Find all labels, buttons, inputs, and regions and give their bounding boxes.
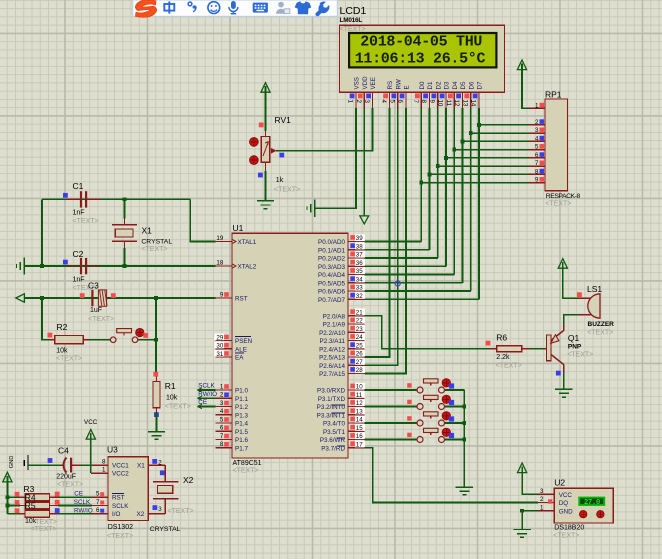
svg-text:30: 30 [216, 343, 223, 350]
svg-text:P0.4/AD4: P0.4/AD4 [318, 272, 345, 279]
svg-text:<TEXT>: <TEXT> [88, 316, 114, 323]
svg-text:<TEXT>: <TEXT> [233, 468, 259, 475]
svg-text:D6: D6 [468, 81, 475, 89]
svg-text:P2.2/A10: P2.2/A10 [319, 330, 345, 337]
svg-text:10: 10 [437, 100, 444, 107]
svg-text:2: 2 [220, 392, 224, 399]
svg-text:3: 3 [540, 488, 544, 495]
svg-text:<TEXT>: <TEXT> [107, 533, 133, 540]
svg-text:P0.2/AD2: P0.2/AD2 [318, 256, 345, 263]
svg-text:2.2k: 2.2k [496, 354, 510, 361]
svg-text:SCLK: SCLK [112, 503, 129, 510]
svg-text:5: 5 [535, 144, 539, 151]
svg-text:1: 1 [347, 100, 354, 104]
svg-text:P1.6: P1.6 [235, 437, 248, 444]
svg-text:DQ: DQ [559, 500, 569, 507]
svg-text:CRYSTAL: CRYSTAL [141, 238, 172, 245]
svg-text:9: 9 [428, 100, 435, 104]
svg-text:C2: C2 [73, 249, 84, 259]
svg-text:8: 8 [535, 168, 539, 175]
svg-text:9: 9 [535, 177, 539, 184]
svg-text:RW/IO: RW/IO [198, 391, 217, 398]
svg-text:14: 14 [356, 417, 363, 424]
svg-text:37: 37 [356, 252, 363, 259]
svg-text:<TEXT>: <TEXT> [31, 526, 57, 533]
svg-text:X1: X1 [142, 226, 153, 236]
svg-text:33: 33 [356, 285, 363, 292]
svg-text:VSS: VSS [354, 77, 361, 89]
svg-text:27: 27 [356, 359, 363, 366]
svg-text:CE: CE [198, 399, 207, 406]
svg-text:P2.5/A13: P2.5/A13 [319, 355, 345, 362]
svg-text:P2.7/A15: P2.7/A15 [319, 371, 345, 378]
svg-text:39: 39 [356, 235, 363, 242]
svg-text:1: 1 [102, 467, 106, 474]
svg-text:12: 12 [356, 400, 363, 407]
svg-text:10: 10 [356, 384, 363, 391]
svg-text:ALE: ALE [235, 346, 247, 353]
svg-text:P3.5/T1: P3.5/T1 [323, 429, 346, 436]
svg-text:P1.1: P1.1 [235, 396, 248, 403]
svg-text:I/O: I/O [112, 511, 120, 518]
svg-text:14: 14 [470, 100, 477, 107]
svg-text:XTAL1: XTAL1 [238, 239, 257, 246]
svg-text:X2: X2 [183, 475, 194, 485]
svg-text:P1.0: P1.0 [235, 388, 248, 395]
svg-text:P3.1/TXD: P3.1/TXD [318, 396, 346, 403]
svg-text:RST: RST [112, 495, 125, 502]
svg-text:P0.5/AD5: P0.5/AD5 [318, 280, 345, 287]
svg-text:21: 21 [356, 309, 363, 316]
svg-text:220uF: 220uF [56, 473, 76, 480]
svg-text:<TEXT>: <TEXT> [56, 355, 82, 362]
svg-text:3: 3 [158, 506, 162, 513]
svg-text:29: 29 [216, 334, 223, 341]
svg-text:5: 5 [388, 100, 395, 104]
svg-text:35: 35 [356, 268, 363, 275]
svg-text:<TEXT>: <TEXT> [567, 351, 593, 358]
svg-text:R5: R5 [25, 501, 36, 511]
svg-text:13: 13 [461, 100, 468, 107]
svg-text:36: 36 [356, 260, 363, 267]
svg-text:P0.6/AD6: P0.6/AD6 [318, 289, 345, 296]
svg-text:25: 25 [356, 342, 363, 349]
svg-text:7: 7 [412, 100, 419, 104]
svg-text:3: 3 [220, 400, 224, 407]
svg-text:<TEXT>: <TEXT> [553, 533, 579, 540]
svg-text:2: 2 [355, 100, 362, 104]
svg-text:P2.1/A9: P2.1/A9 [323, 322, 346, 329]
svg-text:2: 2 [158, 459, 162, 466]
svg-text:LCD1: LCD1 [340, 5, 367, 17]
svg-text:D7: D7 [477, 81, 484, 89]
svg-text:P1.7: P1.7 [235, 445, 248, 452]
svg-text:P3.0/RXD: P3.0/RXD [317, 388, 345, 395]
svg-text:32: 32 [356, 293, 363, 300]
svg-text:P2.0/A8: P2.0/A8 [323, 313, 346, 320]
svg-text:P2.6/A14: P2.6/A14 [319, 363, 345, 370]
svg-text:RW/IO: RW/IO [74, 507, 93, 514]
svg-text:1k: 1k [276, 177, 284, 184]
svg-text:10k: 10k [56, 347, 68, 354]
svg-text:27.0: 27.0 [584, 499, 601, 507]
svg-text:11: 11 [356, 392, 363, 399]
svg-text:23: 23 [356, 326, 363, 333]
svg-text:U1: U1 [233, 223, 244, 233]
svg-text:24: 24 [356, 334, 363, 341]
svg-text:P1.5: P1.5 [235, 429, 248, 436]
svg-text:26: 26 [356, 351, 363, 358]
svg-text:D5: D5 [460, 81, 467, 89]
svg-text:<TEXT>: <TEXT> [141, 246, 167, 253]
svg-text:7: 7 [535, 160, 539, 167]
svg-text:<TEXT>: <TEXT> [73, 218, 99, 225]
svg-text:13: 13 [356, 408, 363, 415]
svg-text:AT89C51: AT89C51 [233, 460, 262, 467]
svg-text:P2.4/A12: P2.4/A12 [319, 346, 345, 353]
svg-text:2: 2 [535, 119, 539, 126]
svg-text:PNP: PNP [568, 343, 582, 350]
svg-text:RESPACK-8: RESPACK-8 [546, 193, 581, 200]
svg-text:P1.2: P1.2 [235, 404, 248, 411]
svg-text:EA: EA [235, 355, 244, 362]
svg-text:4: 4 [380, 100, 387, 104]
svg-text:RS: RS [387, 81, 394, 90]
svg-text:VCC2: VCC2 [112, 471, 129, 478]
svg-text:D0: D0 [419, 81, 426, 89]
svg-text:<TEXT>: <TEXT> [496, 362, 522, 369]
svg-text:4: 4 [535, 135, 539, 142]
svg-text:D3: D3 [444, 81, 451, 89]
svg-text:RW: RW [395, 79, 402, 89]
svg-text:RV1: RV1 [275, 115, 292, 125]
svg-text:6: 6 [397, 100, 404, 104]
svg-text:U3: U3 [107, 444, 118, 454]
svg-text:C4: C4 [58, 445, 69, 455]
svg-text:BUZZER: BUZZER [588, 321, 615, 328]
svg-text:6: 6 [535, 152, 539, 159]
svg-text:9: 9 [220, 291, 224, 298]
svg-text:R6: R6 [496, 332, 507, 342]
svg-text:22: 22 [356, 318, 363, 325]
svg-text:Q1: Q1 [568, 333, 580, 343]
svg-text:VCC: VCC [559, 492, 573, 499]
svg-text:SCLK: SCLK [74, 499, 91, 506]
svg-text:1: 1 [535, 102, 539, 109]
svg-text:19: 19 [216, 235, 223, 242]
svg-text:3: 3 [363, 100, 370, 104]
svg-text:<TEXT>: <TEXT> [587, 330, 613, 337]
svg-text:8: 8 [420, 100, 427, 104]
svg-text:D1: D1 [427, 81, 434, 89]
svg-text:11:06:13 26.5°C: 11:06:13 26.5°C [355, 51, 486, 68]
svg-text:1nF: 1nF [73, 277, 85, 284]
svg-text:10k: 10k [166, 394, 178, 401]
svg-text:P2.3/A11: P2.3/A11 [320, 338, 346, 345]
svg-text:18: 18 [216, 259, 223, 266]
svg-text:C3: C3 [88, 280, 99, 290]
svg-text:3: 3 [535, 127, 539, 134]
svg-text:8: 8 [220, 441, 224, 448]
svg-text:P0.1/AD1: P0.1/AD1 [318, 247, 345, 254]
svg-text:X2: X2 [137, 511, 145, 518]
svg-text:16: 16 [356, 433, 363, 440]
svg-text:2018-04-05 THU: 2018-04-05 THU [360, 34, 482, 51]
svg-text:<TEXT>: <TEXT> [165, 403, 191, 410]
svg-text:2: 2 [540, 496, 544, 503]
svg-text:5: 5 [220, 416, 224, 423]
svg-text:P0.7/AD7: P0.7/AD7 [318, 297, 345, 304]
svg-text:E: E [404, 85, 411, 89]
svg-text:12: 12 [453, 100, 460, 107]
svg-text:15: 15 [356, 425, 363, 432]
svg-text:8: 8 [102, 459, 106, 466]
svg-text:1: 1 [540, 504, 544, 511]
svg-text:X1: X1 [137, 463, 145, 470]
svg-text:R1: R1 [165, 381, 176, 391]
svg-text:<TEXT>: <TEXT> [340, 26, 366, 33]
svg-text:D2: D2 [435, 81, 442, 89]
svg-text:<TEXT>: <TEXT> [545, 200, 571, 207]
svg-text:SCLK: SCLK [198, 383, 215, 390]
svg-text:P1.3: P1.3 [235, 412, 248, 419]
svg-text:PSEN: PSEN [235, 338, 253, 345]
svg-text:RP1: RP1 [545, 90, 562, 100]
svg-text:17: 17 [356, 441, 363, 448]
svg-text:LS1: LS1 [587, 284, 602, 294]
svg-text:7: 7 [220, 433, 224, 440]
svg-text:RST: RST [235, 296, 248, 303]
svg-text:4: 4 [220, 408, 224, 415]
svg-text:<TEXT>: <TEXT> [168, 508, 194, 515]
svg-text:P3.4/T0: P3.4/T0 [323, 421, 346, 428]
svg-text:CRYSTAL: CRYSTAL [150, 526, 181, 533]
svg-text:<TEXT>: <TEXT> [31, 519, 57, 526]
svg-text:C1: C1 [73, 181, 84, 191]
svg-text:DS1302: DS1302 [108, 524, 133, 531]
svg-text:VCC1: VCC1 [112, 463, 129, 470]
svg-text:6: 6 [220, 425, 224, 432]
svg-text:P0.3/AD3: P0.3/AD3 [318, 264, 345, 271]
svg-text:28: 28 [356, 367, 363, 374]
svg-text:XTAL2: XTAL2 [238, 264, 257, 271]
svg-text:LM016L: LM016L [340, 17, 363, 24]
svg-text:38: 38 [356, 243, 363, 250]
svg-text:GND: GND [559, 509, 573, 516]
svg-text:U2: U2 [554, 478, 565, 488]
svg-text:1nF: 1nF [73, 210, 85, 217]
svg-text:CE: CE [74, 491, 83, 498]
svg-text:D4: D4 [452, 81, 459, 89]
svg-text:DS18B20: DS18B20 [554, 525, 584, 532]
svg-text:GND: GND [9, 456, 15, 469]
svg-text:1uF: 1uF [90, 307, 102, 314]
svg-text:R2: R2 [57, 322, 68, 332]
svg-text:34: 34 [356, 276, 363, 283]
svg-text:<TEXT>: <TEXT> [57, 481, 83, 488]
svg-text:VCC: VCC [84, 419, 98, 426]
svg-text:1: 1 [220, 383, 224, 390]
svg-text:P0.0/AD0: P0.0/AD0 [318, 239, 345, 246]
svg-text:<TEXT>: <TEXT> [274, 186, 300, 193]
svg-text:VDD: VDD [362, 76, 369, 90]
svg-text:VEE: VEE [370, 77, 377, 89]
svg-text:P1.4: P1.4 [235, 421, 248, 428]
svg-text:11: 11 [445, 100, 452, 107]
svg-text:31: 31 [216, 351, 223, 358]
